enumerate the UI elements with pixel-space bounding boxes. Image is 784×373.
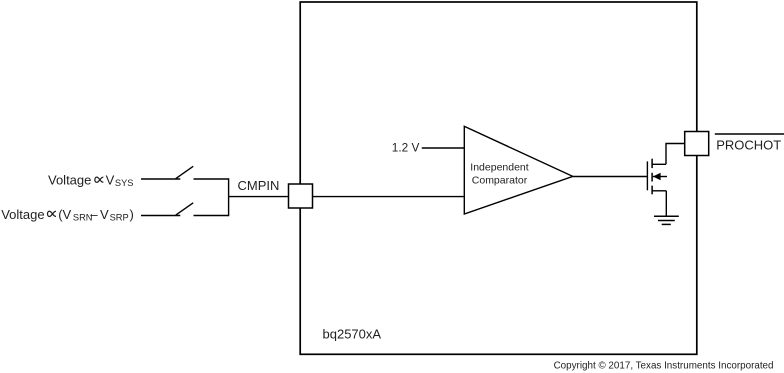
transistor Q1 source lead bbox=[652, 190, 666, 192]
svg-text:bq2570xA: bq2570xA bbox=[323, 327, 382, 342]
svg-text:–: – bbox=[90, 207, 98, 222]
wire: CMPIN pin to comparator input bbox=[313, 196, 465, 198]
svg-text:Copyright © 2017, Texas Instru: Copyright © 2017, Texas Instruments Inco… bbox=[554, 361, 774, 372]
transistor Q1 NMOS gate bar bbox=[646, 161, 648, 190]
svg-text:SYS: SYS bbox=[115, 178, 134, 188]
svg-text:SRP: SRP bbox=[110, 212, 129, 222]
op-amp U1 Independent Comparator bbox=[464, 126, 573, 214]
wire: junction to CMPIN pin bbox=[229, 196, 289, 198]
transistor Q1 body arrow bbox=[653, 173, 667, 180]
svg-text:Comparator: Comparator bbox=[472, 174, 528, 186]
svg-text:CMPIN: CMPIN bbox=[238, 178, 280, 193]
IC boundary box bq2570xA bbox=[300, 2, 697, 354]
svg-text:): ) bbox=[130, 207, 134, 222]
transistor Q1 channel segments bbox=[651, 159, 653, 195]
wire: 1.2V reference to comparator input bbox=[422, 147, 465, 149]
svg-text:Voltage: Voltage bbox=[1, 207, 44, 222]
label Voltage ∝ (VSRN − VSRP) bbox=[1, 207, 134, 223]
wire: VSYS label to switch S1 bbox=[141, 178, 180, 180]
switch S2 blade bbox=[176, 203, 193, 215]
svg-text:PROCHOT: PROCHOT bbox=[716, 138, 781, 153]
svg-text:V: V bbox=[100, 207, 109, 222]
pin PROCHOT bbox=[685, 132, 709, 156]
wire: switch S2 to junction bbox=[194, 215, 229, 217]
wire: PROCHOT net line bbox=[715, 133, 784, 135]
switch S1 blade bbox=[176, 166, 193, 178]
wire: VSRN label to switch S2 bbox=[141, 215, 180, 217]
transistor Q1 drain lead bbox=[652, 163, 666, 165]
svg-text:Independent: Independent bbox=[470, 162, 528, 174]
wire: switch S1 to junction bbox=[194, 178, 229, 180]
svg-text:V: V bbox=[106, 173, 115, 188]
ground bbox=[654, 216, 679, 224]
wire: junction vertical bbox=[228, 178, 230, 216]
label Voltage ∝ VSYS bbox=[48, 173, 134, 189]
svg-text:(V: (V bbox=[58, 207, 71, 222]
pin CMPIN bbox=[289, 184, 313, 208]
svg-text:1.2 V: 1.2 V bbox=[392, 141, 420, 155]
wire: comparator output to Q1 gate bbox=[573, 176, 648, 178]
wire: Q1 source to ground bbox=[665, 191, 667, 217]
wire: Q1 drain to PROCHOT pin bbox=[666, 144, 685, 165]
svg-text:Voltage: Voltage bbox=[48, 173, 91, 188]
